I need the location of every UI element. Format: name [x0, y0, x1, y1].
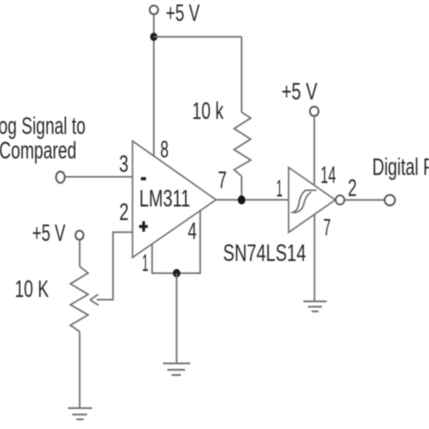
- wire U1 output to inverter input: [216, 199, 289, 201]
- svg-text:14: 14: [321, 163, 336, 189]
- inverting input minus mark: [141, 177, 146, 180]
- svg-text:2: 2: [119, 200, 129, 226]
- svg-text:4: 4: [188, 219, 197, 245]
- non-inverting input plus mark: [139, 221, 148, 232]
- wire pin 2 from wiper: [97, 232, 133, 300]
- wire pin 14 to +5V: [313, 116, 315, 186]
- svg-text:1: 1: [142, 251, 149, 277]
- ground under U2: [303, 301, 326, 311]
- svg-text:7: 7: [218, 168, 227, 194]
- wire to ground from pins 1-4: [176, 273, 178, 363]
- wire pin 1 lead: [152, 211, 200, 274]
- inverter output bubble: [336, 195, 345, 204]
- wire input to pin 3: [65, 176, 133, 178]
- svg-text:SN74LS14: SN74LS14: [223, 241, 306, 267]
- svg-text:10 K: 10 K: [15, 277, 49, 303]
- svg-text:+5 V: +5 V: [282, 80, 318, 106]
- terminal +5V top-left: [150, 5, 159, 14]
- svg-text:1: 1: [276, 177, 283, 203]
- svg-text:LM311: LM311: [139, 186, 190, 212]
- svg-text:3: 3: [119, 152, 129, 178]
- op-amp U1 LM311 triangle: [133, 141, 217, 258]
- svg-text:10 k: 10 k: [192, 99, 224, 125]
- terminal analog input: [56, 172, 65, 183]
- junction dot pins 1-4: [173, 269, 181, 277]
- junction dot output node: [238, 195, 246, 204]
- resistor 10k pull-up zigzag: [234, 112, 251, 176]
- svg-text:og Signal to: og Signal to: [0, 114, 86, 140]
- svg-text:+5 V: +5 V: [166, 1, 200, 27]
- ground under pot: [68, 408, 92, 419]
- wire pin 7 to ground: [314, 215, 316, 302]
- svg-text:7: 7: [323, 216, 331, 242]
- wire U2 output to terminal: [344, 199, 384, 201]
- wire +5V down to pin 8 of U1: [153, 14, 155, 156]
- wire pot bottom lead: [79, 332, 81, 408]
- svg-text:Digital P: Digital P: [372, 155, 429, 181]
- inverter U2 SN74LS14 triangle: [289, 167, 336, 232]
- terminal +5V pot: [75, 231, 83, 240]
- wire pot top lead: [79, 240, 81, 267]
- junction dot at +5V rail: [150, 33, 157, 41]
- svg-text:+5 V: +5 V: [32, 221, 66, 247]
- terminal +5V inverter: [310, 107, 319, 116]
- wire resistor bottom lead to output node: [241, 176, 243, 200]
- wire resistor top lead: [241, 37, 243, 112]
- schmitt hysteresis symbol: [292, 190, 316, 213]
- svg-text:2: 2: [348, 176, 357, 202]
- svg-text:8: 8: [160, 137, 168, 163]
- ground under U1: [163, 363, 190, 375]
- wire +5V rail to pull-up resistor top: [154, 36, 242, 38]
- potentiometer 10K zigzag: [70, 267, 88, 332]
- svg-text:Compared: Compared: [0, 139, 77, 165]
- terminal digital output: [385, 195, 395, 206]
- wiper arrow: [90, 294, 99, 305]
